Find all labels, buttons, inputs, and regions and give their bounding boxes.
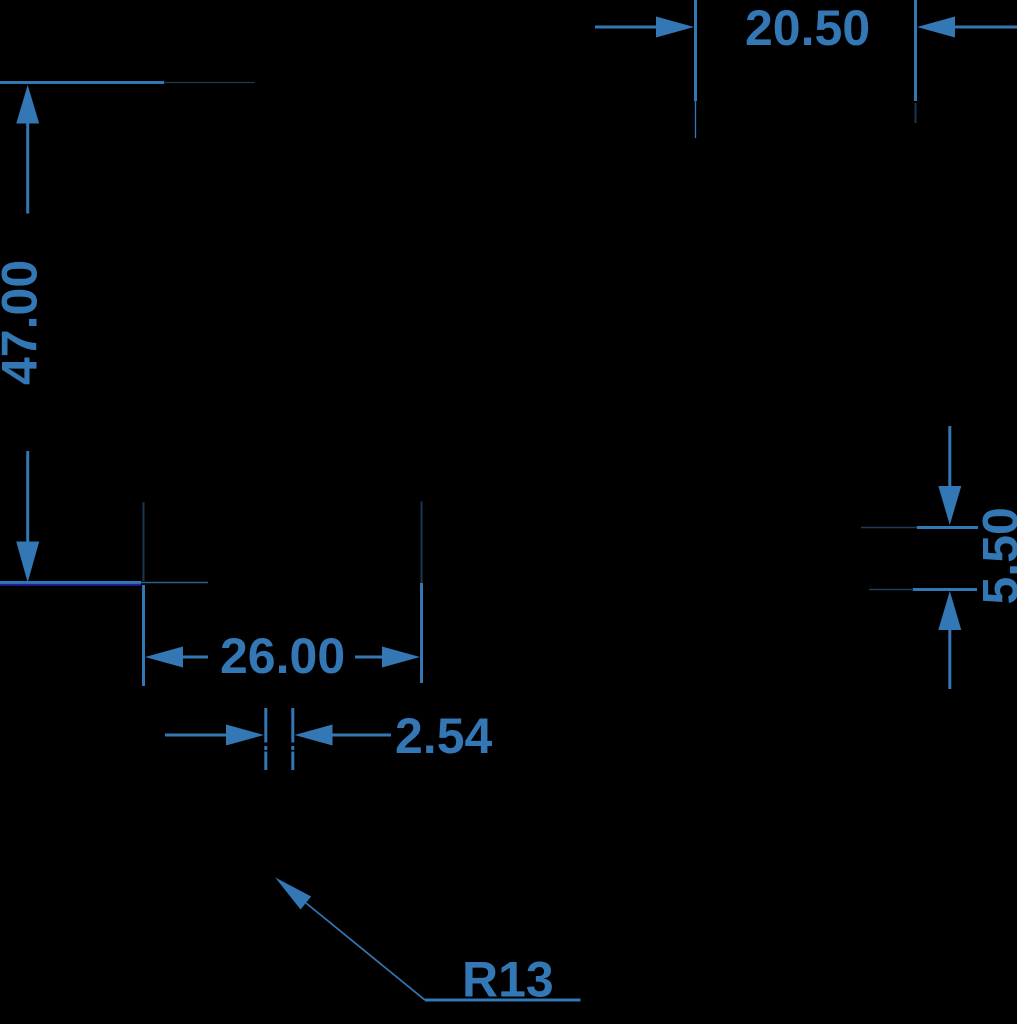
radius R13 : diagonal leader line [306,903,425,1000]
dimension 26.00 : right arrowhead [382,647,420,668]
dimension 2.54 : left leader line [165,734,227,737]
dimension 20.50 : right arrowhead [917,17,955,38]
dimension 2.54 : right centerline dot [291,746,294,750]
svg-text:47.00: 47.00 [0,260,48,385]
dimension 26.00 : left extension line thin upper [143,502,145,581]
dimension 20.50 : right extension line thick [914,0,917,101]
dimension 20.50 : left extension line thin [695,101,697,138]
svg-text:20.50: 20.50 [745,0,870,56]
dimension 2.54 : right centerline dash lower [291,752,294,771]
dimension 20.50 : left leader line [595,26,657,29]
dimension 2.54 : value text [395,708,493,764]
dimension 47.00 : bottom extension line thick [0,581,141,584]
dimension 5.50 : lower extension line thick [913,588,977,591]
dimension 20.50 : right extension line thin [915,103,917,123]
dimension 26.00 : right extension line thick [420,583,423,683]
dimension 2.54 : left arrowhead [226,725,264,746]
dimension 20.50 : value text [745,0,870,56]
dimension 20.50 : right leader line [955,26,1017,29]
dimension 47.00 : top extension line thin [164,82,255,84]
dimension 5.50 : lower leader line [948,630,951,689]
dimension 20.50 : left arrowhead [656,17,694,38]
dimension 5.50 : upper extension line thick [917,526,978,529]
dimension 47.00 : lower dimension line [26,451,29,542]
dimension 47.00 : up arrowhead [16,85,39,124]
dimension 2.54 : left centerline dash lower [264,752,267,771]
dimension 2.54 : left centerline dash upper [264,708,267,743]
dimension 26.00 : left extension line thick [142,585,145,686]
dimension 26.00 : left arrowhead [145,647,183,668]
dimension 2.54 : right arrowhead [295,725,333,746]
dimension 5.50 : upper leader line [948,426,951,487]
svg-text:26.00: 26.00 [220,628,345,684]
svg-text:2.54: 2.54 [395,708,493,764]
radius R13 : arrowhead [275,877,311,909]
dimension 47.00 : upper dimension line [26,124,29,214]
dimension 2.54 : right leader line [333,734,392,737]
dimension 5.50 : value text (rotated) [973,507,1017,604]
dimension 2.54 : right centerline dash upper [291,708,294,743]
svg-text:5.50: 5.50 [973,507,1017,604]
dimension 5.50 : down arrowhead [938,486,961,525]
dimension 26.00 : right dimension line segment [355,656,382,659]
svg-text:R13: R13 [462,951,554,1007]
dimension 26.00 : right extension line thin upper [421,502,423,584]
radius R13 : value text [462,951,554,1007]
dimension 26.00 : value text [220,628,345,684]
dimension 20.50 : left extension line thick [694,0,697,101]
radius R13 : horizontal leader line [425,999,581,1002]
dimension 47.00 : down arrowhead [16,542,39,583]
dimension 5.50 : upper extension line thin [861,527,917,529]
part outline : bottom edge (faint navy) [0,584,141,586]
dimension 47.00 : value text (rotated) [0,260,48,385]
dimension 47.00 : top extension line thick [0,81,164,84]
dimension 2.54 : left centerline dot [264,746,267,750]
dimension 47.00 : bottom extension line thin [141,582,208,584]
dimension 5.50 : up arrowhead [938,591,961,630]
dimension 5.50 : lower extension line thin [869,589,913,591]
dimension 26.00 : left dimension line segment [183,656,208,659]
